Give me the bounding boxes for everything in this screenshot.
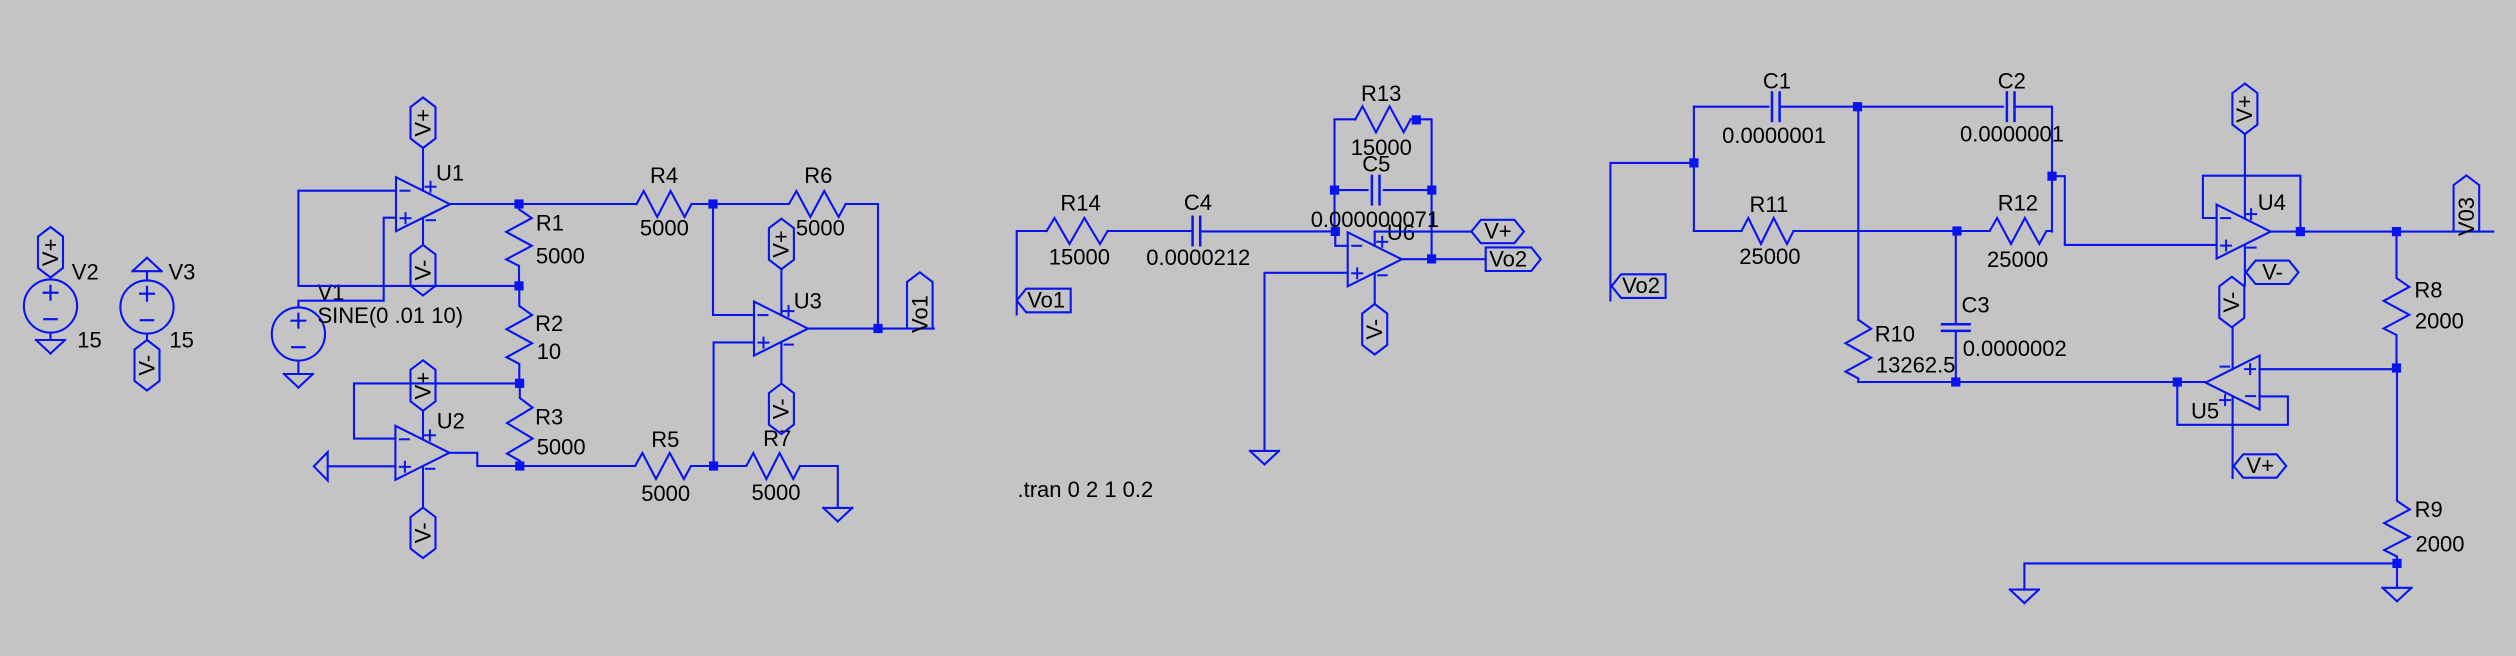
flag V+ above U2 (410, 360, 435, 411)
resistor R6 (713, 191, 846, 217)
label R4 value (640, 215, 689, 240)
wire U5 feedback loop below (2177, 382, 2288, 425)
resistor R13 (1355, 106, 1410, 132)
wire R13 right to vertical (1411, 119, 1432, 259)
svg-text:5000: 5000 (536, 244, 585, 269)
wire U3 non-inverting input down to R5-R7 node (714, 342, 754, 466)
wire U6 output to Vo2 tag (1402, 258, 1486, 260)
op-amp U5 (mirrored) (2206, 356, 2260, 410)
resistor R1 (506, 204, 532, 286)
ground at U6 non-inverting input (1250, 451, 1279, 465)
svg-text:V03: V03 (2454, 197, 2479, 236)
wire R10 branch vertical (1857, 107, 1859, 320)
svg-text:V-: V- (769, 398, 794, 419)
label R7 value (752, 480, 801, 505)
svg-text:25000: 25000 (1739, 244, 1800, 269)
label R3 value (537, 435, 586, 460)
flag V- below U1 (410, 245, 435, 296)
op-amp U3 (754, 302, 808, 356)
label C2 value (1960, 121, 2064, 146)
wire top row to C1 (1694, 106, 1769, 108)
voltage source V2 symbol (24, 279, 77, 332)
wire R5 row from U2 output (520, 465, 635, 467)
resistor R10 (1846, 320, 1872, 382)
wire U1 non-inverting input to V1 plus (298, 218, 396, 308)
label U2 name (437, 409, 465, 434)
svg-text:13262.5: 13262.5 (1876, 352, 1956, 377)
svg-text:V+: V+ (38, 239, 63, 267)
wire C4 to U6 inverting node (1201, 230, 1336, 232)
svg-text:U4: U4 (2258, 190, 2286, 215)
wire U2 output jog to R3 bottom (450, 453, 520, 466)
svg-text:R3: R3 (535, 404, 563, 429)
wire U6 V+ pin to flag (1375, 232, 1472, 246)
label R8 name (2414, 278, 2442, 303)
label R1 value (536, 244, 585, 269)
svg-text:V-: V- (134, 355, 159, 376)
capacitor C1 (1772, 93, 1780, 121)
wire U2 V+ pin (422, 411, 424, 440)
svg-text:R12: R12 (1998, 191, 2038, 216)
flag V- right of U4 V- pin (2246, 260, 2299, 285)
flag V+ on V2 positive terminal (38, 227, 63, 278)
svg-text:U5: U5 (2191, 399, 2219, 424)
flag V- below U2 (410, 508, 435, 558)
junction C3 bottom row (1951, 377, 1960, 386)
label R12 name (1998, 191, 2038, 216)
wire R11 to R12 (1794, 230, 1990, 232)
svg-text:R13: R13 (1361, 81, 1401, 106)
label R6 name (804, 163, 832, 188)
wire U5 non-inverting input to R8-R9 node (2260, 368, 2397, 370)
junction C5 left (1330, 186, 1339, 195)
svg-text:V3: V3 (169, 260, 196, 285)
junction R9 bottom ground node (2392, 559, 2401, 568)
svg-text:U2: U2 (437, 409, 465, 434)
capacitor C3 (vertical) (1942, 324, 1970, 331)
label R3 name (535, 404, 563, 429)
label R9 value (2416, 532, 2465, 557)
resistor R14 (1047, 218, 1108, 244)
label U3 name (794, 289, 822, 314)
wire left vertical C1-R11 (1693, 107, 1695, 231)
wire U1 V+ pin (422, 148, 424, 191)
ground below V2 (36, 340, 65, 354)
wire V2 minus to ground (49, 333, 51, 340)
label U4 name (2258, 190, 2286, 215)
svg-text:V+: V+ (769, 230, 794, 258)
wire U3 V+ pin (780, 269, 782, 315)
svg-text:10: 10 (537, 339, 561, 364)
label C5 name (1362, 152, 1390, 177)
flag V+ above U3 (769, 219, 794, 270)
label U6 name (1387, 220, 1415, 245)
svg-text:R1: R1 (536, 210, 564, 235)
svg-text:R9: R9 (2415, 497, 2443, 522)
wire R14 to C4 (1108, 230, 1192, 232)
resistor R5 (635, 453, 714, 479)
svg-text:U1: U1 (436, 160, 464, 185)
label R10 name (1875, 322, 1915, 347)
ground below V1 (284, 374, 313, 388)
wire U4 feedback loop above (2203, 176, 2301, 232)
svg-text:0.0000001: 0.0000001 (1960, 121, 2064, 146)
label U1 name (436, 160, 464, 185)
wire C3 bottom lead (1955, 331, 1957, 382)
junction R4-R6-U3 inverting (708, 199, 717, 208)
junction at R13 right lead (1412, 115, 1421, 124)
junction R1-R2 node A (514, 281, 523, 290)
wire Vo2 tag up to C1 row (1610, 163, 1694, 301)
svg-text:C1: C1 (1763, 69, 1791, 94)
resistor R9 (2384, 368, 2410, 563)
junction U3 output node Vo1 (873, 324, 882, 333)
label C3 value (1963, 336, 2067, 361)
wire U4 V+ pin (2244, 134, 2246, 218)
wire C2 down to R12 right node (2015, 107, 2053, 232)
wire U2 V- pin (422, 466, 424, 507)
svg-text:R2: R2 (535, 311, 563, 336)
wire C3 top lead (1955, 231, 1957, 325)
wire feedback left vertical of R13/C5 (1335, 119, 1356, 231)
svg-text:V-: V- (1362, 319, 1387, 340)
svg-text:0.0000212: 0.0000212 (1146, 245, 1250, 270)
wire U1 V- pin (422, 218, 424, 245)
junction U4 output R8 node (2392, 227, 2401, 236)
svg-text:R5: R5 (651, 427, 679, 452)
wire C5 right lead (1384, 189, 1432, 191)
flag V03 output pentagon (2454, 175, 2480, 236)
resistor R4 (637, 191, 692, 217)
svg-text:V+: V+ (410, 372, 435, 400)
svg-text:R6: R6 (804, 163, 832, 188)
junction U6 output (1427, 254, 1436, 263)
label C5 value (1311, 207, 1439, 232)
svg-text:V+: V+ (2246, 453, 2274, 478)
junction R11-R12-C3 node (1952, 226, 1961, 235)
junction C5 right (1427, 186, 1436, 195)
wire U6 non-inverting input to ground (1265, 273, 1348, 451)
flag Vo1 output pentagon (907, 272, 933, 333)
wire U2 inverting input feedback to node B (354, 383, 520, 438)
svg-text:C4: C4 (1184, 190, 1212, 215)
label R13 name (1361, 81, 1401, 106)
resistor R2 (507, 286, 533, 383)
svg-text:V-: V- (2219, 292, 2244, 313)
svg-text:15000: 15000 (1049, 244, 1110, 269)
ground after R7 (823, 508, 852, 522)
svg-text:V2: V2 (72, 260, 99, 285)
resistor R7 (714, 453, 800, 479)
flag V- above U5 (2219, 277, 2244, 328)
junction R8-R9-U5 node (2392, 363, 2401, 372)
label R6 value (796, 216, 845, 241)
svg-text:15: 15 (169, 328, 193, 353)
wire U5 top power pin (2232, 327, 2234, 369)
resistor R12 (1990, 218, 2052, 244)
label R9 name (2415, 497, 2443, 522)
label R11 value (1739, 244, 1800, 269)
capacitor C2 (2007, 93, 2015, 121)
junction R2-R3 node B (515, 379, 524, 388)
svg-text:V-: V- (410, 522, 435, 543)
wire V3 plus to ground arrow (146, 271, 148, 280)
wire R7 to ground (800, 466, 838, 508)
label R10 value (1876, 352, 1956, 377)
wire U5 bottom power pin (2232, 396, 2234, 478)
net label Vo1 tag (1017, 287, 1071, 312)
wire C1 to C2 (1780, 106, 2003, 108)
junction U4 feedback-output (2296, 227, 2305, 236)
wire U6 V- pin (1374, 273, 1376, 304)
label V2 value 15 (77, 328, 101, 353)
svg-text:V+: V+ (410, 109, 435, 137)
label R1 name (536, 210, 564, 235)
svg-text:5000: 5000 (752, 480, 801, 505)
wire ground return bottom (2024, 563, 2397, 589)
svg-text:0.000000071: 0.000000071 (1311, 207, 1439, 232)
voltage source V1 symbol (272, 307, 325, 360)
label R12 value (1987, 247, 2048, 272)
svg-text:5000: 5000 (537, 435, 586, 460)
label V1 value SINE (318, 303, 464, 328)
wire U4 output row to V03 (2271, 231, 2494, 233)
junction top row R10 branch (1853, 102, 1862, 111)
label R4 name (650, 163, 678, 188)
wire U1 output row with R4 R6 (450, 204, 878, 329)
svg-text:R8: R8 (2414, 278, 2442, 303)
label R5 value (641, 481, 690, 506)
flag V- below U3 (769, 384, 794, 435)
flag V+ right of U6 (1471, 219, 1524, 244)
svg-text:R10: R10 (1875, 322, 1915, 347)
wire C5 left lead (1335, 189, 1368, 191)
svg-text:V-: V- (410, 260, 435, 281)
resistor R3 (507, 383, 533, 466)
directive .tran text (1018, 477, 1154, 502)
junction Vo2 wire to left vertical (1689, 158, 1698, 167)
wire U1 inverting input feedback to node A (298, 191, 519, 286)
svg-text:Vo2: Vo2 (1489, 246, 1527, 271)
wire R9 to ground stub (2396, 563, 2398, 587)
wire into U6 inverting input (1335, 231, 1347, 245)
svg-text:V-: V- (2262, 260, 2283, 285)
wire U3 inverting input up to R4-R6 node (713, 204, 754, 315)
resistor R8 (2384, 232, 2410, 368)
svg-text:V+: V+ (2232, 95, 2257, 123)
label R8 value (2415, 309, 2464, 334)
capacitor C5 (1372, 176, 1380, 204)
wire U3 output to Vo1 (808, 328, 934, 330)
wire V1 minus to ground (297, 361, 299, 374)
label R13 value (1351, 135, 1412, 160)
label C1 value (1722, 123, 1826, 148)
voltage source V3 symbol (120, 280, 173, 333)
net label Vo2 tag right of U6 (1486, 246, 1541, 271)
label V3 value 15 (169, 328, 193, 353)
label V1 name (318, 280, 345, 305)
flag V- on V3 negative terminal (134, 340, 159, 391)
op-amp U1 (396, 177, 450, 231)
svg-text:2000: 2000 (2416, 532, 2465, 557)
svg-text:5000: 5000 (796, 216, 845, 241)
svg-text:.tran 0 2 1 0.2: .tran 0 2 1 0.2 (1018, 477, 1154, 502)
flag V+ below U5 (2234, 453, 2287, 478)
op-amp U4 (2217, 205, 2271, 259)
label R14 name (1060, 191, 1100, 216)
svg-text:R4: R4 (650, 163, 678, 188)
flag V- below U6 (1362, 304, 1387, 355)
label R2 value (537, 339, 561, 364)
wire bottom row R10-C3-U5 output (1858, 381, 2206, 383)
svg-text:C3: C3 (1962, 293, 1990, 318)
svg-text:0.0000001: 0.0000001 (1722, 123, 1826, 148)
label C2 name (1998, 69, 2026, 94)
flag V+ above U4 (2232, 84, 2257, 135)
label C1 name (1763, 69, 1791, 94)
op-amp U6 (1348, 232, 1402, 286)
wire U2 non-inverting input to arrow flag (328, 465, 396, 467)
svg-text:15: 15 (77, 328, 101, 353)
label V3 name (169, 260, 196, 285)
wire V3 minus to flag (146, 334, 148, 340)
flag V+ above U1 (410, 98, 435, 149)
svg-text:V+: V+ (1484, 219, 1512, 244)
ground (rotated) above V3 plus terminal (133, 258, 162, 272)
label R5 name (651, 427, 679, 452)
capacitor C4 (1193, 217, 1201, 245)
junction R3-R5-U2 output (515, 461, 524, 470)
junction C4-U6 inverting node (1331, 227, 1340, 236)
svg-text:U3: U3 (794, 289, 822, 314)
ground at bottom return (2010, 590, 2039, 604)
svg-text:Vo1: Vo1 (907, 295, 932, 333)
label R14 value (1049, 244, 1110, 269)
wire R11 row (1694, 230, 1742, 232)
resistor R11 (1742, 218, 1794, 244)
op-amp U2 (395, 426, 449, 480)
label C3 name (1962, 293, 1990, 318)
svg-text:2000: 2000 (2415, 309, 2464, 334)
svg-text:C5: C5 (1362, 152, 1390, 177)
label R7 name (763, 426, 791, 451)
label V2 name (72, 260, 99, 285)
svg-text:5000: 5000 (640, 215, 689, 240)
svg-text:C2: C2 (1998, 69, 2026, 94)
wire U3 V- pin (780, 342, 782, 384)
label C4 name (1184, 190, 1212, 215)
svg-text:R11: R11 (1750, 192, 1789, 217)
label R2 name (535, 311, 563, 336)
svg-text:25000: 25000 (1987, 247, 2048, 272)
svg-text:Vo1: Vo1 (1027, 287, 1065, 312)
wire node to U4 non-inverting input (2052, 176, 2217, 245)
junction C2-R12-U4 node (2047, 172, 2056, 181)
svg-text:0.0000002: 0.0000002 (1963, 336, 2067, 361)
label R11 name (1750, 192, 1789, 217)
wire Vo1 tag to R14 (1017, 231, 1047, 314)
junction U1 output / R1 (514, 199, 523, 208)
svg-text:5000: 5000 (641, 481, 690, 506)
junction R5-R7-U3 non-inverting (709, 461, 718, 470)
svg-text:Vo2: Vo2 (1622, 273, 1660, 298)
junction U5 output feedback node (2173, 377, 2182, 386)
wire U4 V- pin (2244, 245, 2246, 285)
label U5 name (2191, 399, 2219, 424)
input arrow flag at U2 non-inverting input (314, 452, 328, 480)
net label Vo2 tag (filter input) (1612, 273, 1666, 298)
svg-text:SINE(0 .01 10): SINE(0 .01 10) (318, 303, 464, 328)
svg-text:R14: R14 (1060, 191, 1100, 216)
ground below R9 (2383, 588, 2412, 602)
label C4 value (1146, 245, 1250, 270)
